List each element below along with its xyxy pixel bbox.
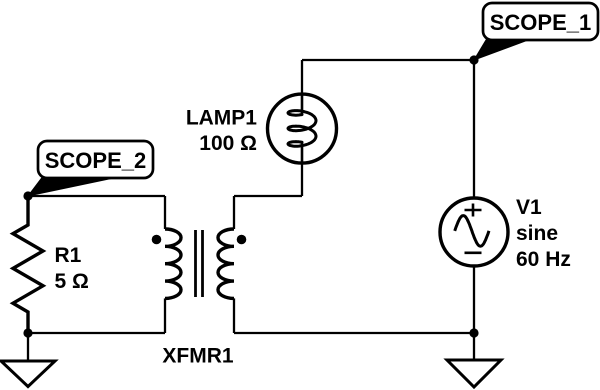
ground right (447, 360, 501, 387)
sine wave (455, 216, 489, 247)
svg-text:SCOPE_1: SCOPE_1 (490, 10, 592, 35)
wire left node to ground (27, 333, 29, 361)
ground left (1, 361, 55, 387)
node bottom-right junction (469, 328, 478, 337)
voltage source V1 (440, 196, 571, 271)
wire lamp to secondary horizontal (234, 195, 302, 197)
secondary phase dot (237, 235, 247, 245)
primary phase dot (152, 235, 162, 245)
svg-text:V1: V1 (516, 196, 542, 219)
plus sign (465, 204, 482, 217)
core line right (201, 230, 204, 297)
wire right node to ground (473, 333, 475, 360)
primary winding (165, 229, 181, 298)
scope callout SCOPE_2 (28, 141, 153, 196)
lamp LAMP1 (186, 94, 337, 163)
transformer XFMR1 (152, 229, 247, 368)
wire lamp top lead (301, 60, 303, 94)
wire top-left node to transformer primary top (28, 195, 165, 197)
svg-text:R1: R1 (55, 244, 82, 267)
wire lamp internal top (301, 94, 304, 115)
wire secondary top lead (233, 196, 235, 229)
wire lamp bottom lead (301, 163, 303, 196)
wire primary bottom lead (164, 298, 166, 333)
wire primary top lead (164, 196, 166, 229)
node bottom-left junction (23, 328, 32, 337)
svg-text:5 Ω: 5 Ω (55, 270, 89, 293)
node SCOPE_1 junction (469, 55, 478, 64)
wire secondary bottom lead (233, 298, 235, 333)
resistor R1 (13, 196, 89, 333)
svg-text:60 Hz: 60 Hz (516, 248, 571, 271)
wire V1 top lead (473, 60, 475, 198)
svg-text:sine: sine (516, 222, 558, 245)
core line left (194, 230, 197, 297)
wire V1 bottom lead (473, 266, 475, 333)
svg-text:100 Ω: 100 Ω (199, 132, 257, 155)
wire lamp internal bottom (301, 142, 304, 163)
wire top horizontal lamp to V1 node (302, 59, 474, 61)
node SCOPE_2 junction (23, 191, 32, 200)
filament (288, 111, 316, 147)
minus sign (465, 252, 482, 255)
svg-text:LAMP1: LAMP1 (186, 107, 257, 130)
wire bottom-left horizontal (28, 332, 165, 334)
svg-text:SCOPE_2: SCOPE_2 (45, 148, 147, 173)
scope callout SCOPE_1 (474, 3, 598, 60)
svg-text:XFMR1: XFMR1 (162, 345, 233, 368)
secondary winding (218, 229, 234, 298)
wire bottom horizontal secondary to V1 node (234, 332, 474, 334)
